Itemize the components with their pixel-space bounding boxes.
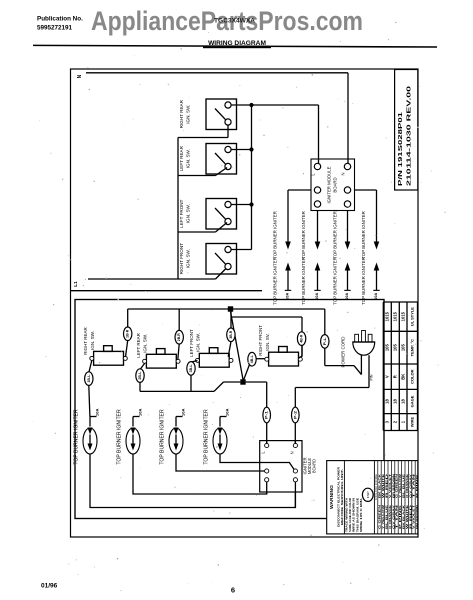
svg-text:O ORANGE: O ORANGE (388, 505, 392, 529)
svg-text:RIGHT REAR: RIGHT REAR (83, 326, 88, 354)
svg-text:2B-R: 2B-R (177, 332, 181, 341)
svg-text:IGN. SW.: IGN. SW. (143, 334, 148, 353)
svg-text:W WHITE: W WHITE (381, 473, 385, 498)
svg-text:WIRING DIAGRAM: WIRING DIAGRAM (208, 40, 266, 47)
svg-text:WARNING: WARNING (329, 485, 334, 509)
svg-text:IGN. SW.: IGN. SW. (196, 333, 201, 352)
svg-text:R: R (393, 375, 398, 378)
svg-text:POWER CORD: POWER CORD (341, 336, 347, 367)
svg-text:G GREEN: G GREEN (395, 474, 399, 498)
svg-text:P-L: P-L (323, 337, 327, 345)
svg-text:10A: 10A (285, 293, 289, 300)
svg-text:P-1: P-1 (265, 411, 269, 419)
svg-text:IGNITER MODULE: IGNITER MODULE (327, 166, 332, 203)
svg-text:TOP BURNER IGNITER: TOP BURNER IGNITER (333, 257, 338, 305)
svg-text:TOP BURNER IGNITER: TOP BURNER IGNITER (116, 409, 122, 465)
svg-text:01/96: 01/96 (41, 583, 58, 590)
svg-text:WIRE AS SHOWN IN: WIRE AS SHOWN IN (352, 498, 356, 532)
svg-text:PIN: PIN (370, 374, 374, 381)
svg-text:3B-R: 3B-R (229, 330, 233, 339)
svg-text:BL BLUE: BL BLUE (385, 504, 389, 529)
svg-text:W WHITE: W WHITE (405, 504, 409, 529)
svg-text:BEFORE SERVICING UNIT.: BEFORE SERVICING UNIT. (340, 469, 344, 525)
svg-text:TOP BURNER IGNITER: TOP BURNER IGNITER (333, 211, 338, 259)
svg-text:10A: 10A (96, 408, 100, 416)
svg-text:P/N 191S028P01: P/N 191S028P01 (398, 111, 404, 186)
svg-text:18: 18 (385, 399, 390, 404)
svg-text:R RED: R RED (385, 474, 389, 498)
svg-text:TGC3X4WXA: TGC3X4WXA (214, 18, 255, 25)
svg-text:L1: L1 (73, 281, 78, 287)
svg-text:COLOR CODE: COLOR CODE (374, 474, 378, 500)
svg-text:BR BROWN: BR BROWN (391, 474, 395, 498)
svg-text:10A: 10A (315, 293, 319, 300)
svg-text:3B-L: 3B-L (189, 364, 193, 372)
svg-text:LEFT FRONT: LEFT FRONT (189, 329, 194, 357)
svg-text:210114-1030 REV.00: 210114-1030 REV.00 (407, 86, 413, 186)
svg-text:GY GRAY: GY GRAY (408, 473, 412, 498)
svg-text:R RED: R RED (408, 505, 412, 529)
svg-text:WIRE: WIRE (409, 417, 414, 428)
svg-text:RIGHT FRONT: RIGHT FRONT (179, 243, 184, 274)
svg-text:BL BLUE: BL BLUE (402, 473, 406, 498)
svg-text:GY GRAY: GY GRAY (391, 504, 395, 529)
svg-text:LEFT REAR: LEFT REAR (179, 145, 184, 171)
svg-text:Publication No.: Publication No. (37, 16, 83, 23)
svg-text:TEMP. °C: TEMP. °C (409, 339, 414, 356)
svg-text:RIGHT FRONT: RIGHT FRONT (258, 325, 263, 356)
svg-text:GAGE: GAGE (409, 395, 414, 407)
svg-text:BK BLACK: BK BLACK (402, 505, 406, 529)
svg-text:105: 105 (385, 343, 390, 351)
svg-text:SAME GAGE AND COLOR: SAME GAGE AND COLOR (348, 498, 352, 532)
svg-text:T TAN: T TAN (412, 474, 416, 498)
svg-text:LEFT FRONT: LEFT FRONT (179, 199, 184, 227)
svg-text:N: N (77, 74, 83, 78)
svg-text:18: 18 (393, 399, 398, 404)
svg-text:TRACE WIRING WITH: TRACE WIRING WITH (345, 498, 349, 532)
svg-text:IGN. SW.: IGN. SW. (186, 204, 191, 223)
svg-text:TOP BURNER IGNITER: TOP BURNER IGNITER (301, 211, 306, 259)
svg-text:TOP BURNER IGNITER: TOP BURNER IGNITER (301, 257, 306, 305)
svg-text:10A: 10A (139, 408, 143, 416)
svg-text:1015: 1015 (385, 311, 390, 321)
svg-text:1B-R: 1B-R (126, 329, 130, 338)
svg-text:TOP BURNER IGNITER: TOP BURNER IGNITER (203, 409, 209, 465)
svg-text:18: 18 (400, 399, 405, 404)
svg-text:P PINK: P PINK (415, 474, 419, 498)
svg-text:N: N (341, 172, 346, 175)
svg-text:V VIOLET: V VIOLET (412, 504, 416, 529)
svg-text:IGN. SV.: IGN. SV. (265, 333, 270, 350)
svg-text:Y YELLOW: Y YELLOW (381, 504, 385, 529)
svg-text:1015: 1015 (393, 311, 398, 321)
svg-text:TOP BURNER IGNITER: TOP BURNER IGNITER (273, 257, 278, 305)
svg-text:IGN. SW.: IGN. SW. (186, 249, 191, 268)
svg-text:4B-R: 4B-R (300, 334, 304, 343)
svg-text:5995272191: 5995272191 (37, 25, 73, 32)
svg-text:N: N (289, 451, 294, 454)
svg-text:COLOR: COLOR (409, 369, 414, 384)
svg-text:IGN. SW.: IGN. SW. (90, 331, 95, 350)
svg-text:TOP BURNER IGNITER: TOP BURNER IGNITER (361, 211, 366, 259)
svg-text:105: 105 (393, 343, 398, 351)
svg-text:BR BROWN: BR BROWN (415, 505, 419, 529)
svg-text:4B-L: 4B-L (250, 355, 254, 363)
svg-text:TOP BURNER IGNITER: TOP BURNER IGNITER (73, 409, 79, 465)
svg-text:TOP BURNER IGNITER: TOP BURNER IGNITER (361, 257, 366, 305)
svg-text:THIS DIAGRAM. USE: THIS DIAGRAM. USE (355, 498, 359, 532)
svg-text:LEFT REAR: LEFT REAR (136, 332, 141, 357)
svg-text:IGN. SW.: IGN. SW. (186, 149, 191, 168)
svg-text:BK BLACK: BK BLACK (378, 474, 382, 498)
svg-text:10A: 10A (345, 293, 349, 300)
svg-text:FSP: FSP (366, 491, 370, 498)
svg-text:T TAN: T TAN (395, 505, 399, 529)
svg-text:V: V (385, 375, 390, 378)
svg-text:P-2: P-2 (293, 411, 297, 419)
svg-text:1B-L: 1B-L (87, 375, 91, 383)
svg-text:2B-L: 2B-L (138, 372, 142, 380)
svg-text:IGN. SW.: IGN. SW. (186, 105, 191, 124)
svg-text:105: 105 (400, 343, 405, 351)
svg-text:6: 6 (231, 586, 235, 595)
svg-text:10A: 10A (182, 408, 186, 416)
svg-text:TOP BURNER IGNITER: TOP BURNER IGNITER (273, 211, 278, 259)
svg-text:1015: 1015 (400, 311, 405, 321)
svg-text:P PINK: P PINK (398, 505, 402, 529)
svg-text:RIGHT REAR: RIGHT REAR (179, 99, 184, 128)
svg-text:TOP BURNER IGNITER: TOP BURNER IGNITER (159, 409, 165, 465)
svg-text:10A: 10A (226, 408, 230, 416)
svg-text:BOARD: BOARD (312, 459, 317, 473)
svg-text:BOARD: BOARD (333, 177, 338, 192)
svg-text:V VIOLET: V VIOLET (388, 473, 392, 498)
svg-text:WIRE 105 C MIN.: WIRE 105 C MIN. (359, 498, 363, 532)
svg-text:Y YELLOW: Y YELLOW (398, 473, 402, 498)
svg-text:BK: BK (400, 374, 405, 380)
svg-text:UL STYLE: UL STYLE (409, 307, 414, 327)
svg-text:O ORANGE: O ORANGE (405, 474, 409, 498)
svg-text:10A: 10A (374, 293, 378, 300)
svg-text:G GREEN: G GREEN (378, 505, 382, 529)
